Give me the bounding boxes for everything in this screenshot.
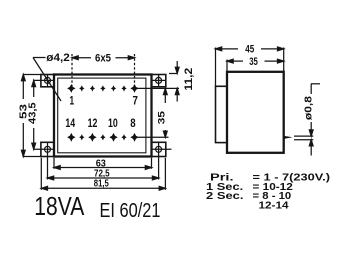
- dimension 53 line: [22, 75, 24, 100]
- svg-text:35: 35: [249, 56, 258, 68]
- dimension 35 line (side view): [227, 60, 243, 62]
- dimension 0,8 arrows: [310, 122, 312, 130]
- hole centerline horizontal top-left (also 43,5 extension): [33, 79, 54, 81]
- extension below body left edge (63): [53, 158, 55, 169]
- side view mounting flange: [216, 86, 228, 142]
- svg-text:14: 14: [65, 116, 75, 130]
- hole centerline vertical bottom-left (extends down as 72,5 extension): [47, 142, 49, 179]
- svg-text:EI 60/21: EI 60/21: [100, 199, 161, 222]
- dimension 11,2 line: [176, 61, 178, 68]
- mounting hole bottom-right: [156, 146, 162, 152]
- extension below body right edge (63): [151, 158, 153, 169]
- pin 6: [121, 85, 126, 91]
- svg-text:ø0,8: ø0,8: [304, 96, 315, 120]
- dimension 81,5 line: [41, 187, 165, 189]
- extension line left (45) / flange left edge continues up: [215, 48, 217, 87]
- svg-text:45: 45: [245, 44, 254, 56]
- mounting hole top-left: [45, 77, 51, 83]
- svg-text:2 Sec.: 2 Sec.: [206, 191, 244, 202]
- hole centerline vertical top-right: [158, 75, 160, 87]
- pin 13: [79, 134, 84, 140]
- svg-text:6x5: 6x5: [95, 53, 111, 65]
- pin 3: [90, 85, 95, 91]
- svg-text:81,5: 81,5: [94, 178, 109, 189]
- extension below tab left edge (81,5): [40, 158, 42, 190]
- pin 10: [109, 133, 117, 142]
- svg-text:11,2: 11,2: [183, 68, 195, 91]
- svg-text:7: 7: [133, 94, 139, 108]
- hole centerline vertical bottom-right (extends down as 72,5 extension): [158, 142, 160, 179]
- extension line for 35 (body left edge up): [226, 60, 228, 72]
- dimension 43,5 line: [33, 80, 35, 97]
- pin 7: [130, 84, 138, 93]
- svg-text:10: 10: [108, 116, 118, 130]
- dimension 6x5 line: [72, 57, 91, 59]
- pin row extension line right (top row): [135, 87, 180, 89]
- dimension 63 line: [54, 167, 152, 169]
- svg-text:12: 12: [88, 116, 98, 130]
- transformer body outline (top view): [54, 75, 152, 157]
- pin diameter extension lines: [294, 135, 313, 137]
- svg-text:18VA: 18VA: [34, 193, 84, 221]
- side view body: [227, 72, 284, 153]
- hole centerline horizontal bottom-right: [152, 148, 172, 150]
- hole centerline horizontal bottom-left (also 43,5 extension): [33, 148, 54, 150]
- pin 11: [100, 134, 105, 140]
- extension line right (45/35): [283, 48, 285, 72]
- 6x5 extension line left (dashed, pin 1): [71, 54, 73, 86]
- dimension 45 line: [216, 48, 239, 50]
- 6x5 extension line right (dashed, pin 7): [134, 54, 136, 86]
- svg-text:35: 35: [157, 111, 167, 125]
- svg-text:1: 1: [70, 94, 75, 108]
- leader line for hole diameter 4,2: [33, 57, 46, 59]
- 11,2 top extension tick: [169, 73, 177, 75]
- 53 extension bottom: [23, 156, 41, 158]
- mounting tab bottom-right: [152, 142, 166, 156]
- svg-text:ø4,2: ø4,2: [46, 52, 70, 64]
- hole centerline vertical top-left: [47, 75, 49, 87]
- mounting tab top-left: [41, 75, 54, 87]
- pin 9: [121, 134, 126, 140]
- 53 extension top: [23, 74, 41, 76]
- svg-text:12-14: 12-14: [259, 200, 290, 211]
- pin 1: [67, 84, 75, 93]
- 0,8 top hook: [310, 84, 312, 94]
- pin 2: [79, 85, 84, 91]
- svg-text:43,5: 43,5: [27, 102, 38, 124]
- dimension 72,5 line: [48, 177, 159, 179]
- mounting hole bottom-left: [45, 146, 51, 152]
- dimension 35 line (top view): [164, 88, 166, 103]
- pin 14: [67, 133, 75, 142]
- mounting tab bottom-left: [41, 142, 54, 156]
- svg-text:8: 8: [130, 116, 136, 130]
- mounting hole top-right: [156, 77, 162, 83]
- hole centerline horizontal top-right: [152, 79, 166, 81]
- pin 8: [130, 133, 138, 142]
- pin 12: [88, 133, 96, 142]
- cover inner edge (top view): [58, 78, 146, 153]
- solder pin (side view): [284, 136, 293, 139]
- mounting tab top-right: [152, 75, 166, 87]
- pin 4: [100, 85, 105, 91]
- extension below tab right edge (81,5): [164, 158, 166, 190]
- pin row extension line right (bottom row): [137, 136, 169, 138]
- pin 5: [111, 85, 116, 91]
